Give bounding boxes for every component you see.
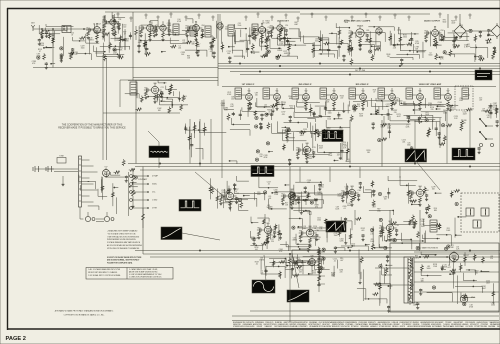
wire sound takeoff B bbox=[128, 80, 218, 82]
svg-text:1500: 1500 bbox=[237, 25, 241, 27]
svg-text:A HOWARD W. SAMS PHOTOFACT STA: A HOWARD W. SAMS PHOTOFACT STANDARD NOTA… bbox=[55, 310, 114, 313]
svg-text:474M5N60G: 474M5N60G bbox=[255, 322, 265, 324]
tube V23 AGC bbox=[348, 189, 355, 196]
svg-text:R83: R83 bbox=[299, 231, 302, 233]
tube V9b extra bbox=[376, 28, 382, 34]
wire IF signal path bbox=[238, 94, 246, 96]
svg-text:WS04S866: WS04S866 bbox=[361, 326, 369, 328]
dashed box video det bbox=[455, 86, 473, 110]
capacitor C2 drop bbox=[52, 29, 54, 33]
svg-text:.01: .01 bbox=[209, 51, 211, 53]
svg-text:9BOBLG: 9BOBLG bbox=[392, 326, 399, 328]
wire tuner bottom long bbox=[33, 67, 218, 69]
B+ bus 3 bbox=[218, 68, 500, 70]
svg-text:.001: .001 bbox=[287, 55, 290, 57]
tube V29 HV rect bbox=[450, 253, 459, 262]
svg-text:1 MEG: 1 MEG bbox=[292, 239, 298, 241]
svg-text:R25: R25 bbox=[341, 191, 344, 193]
svg-text:ALL WAVE TELEVISION: ALL WAVE TELEVISION bbox=[418, 247, 438, 250]
tuner wire dots bbox=[41, 28, 42, 29]
cluster mixer parts bbox=[114, 49, 120, 51]
wires vert out area bbox=[297, 265, 318, 267]
svg-text:STCHIL3ULRGD: STCHIL3ULRGD bbox=[379, 326, 392, 328]
svg-text:220: 220 bbox=[255, 95, 258, 97]
svg-text:220: 220 bbox=[307, 182, 310, 184]
svg-text:.0047: .0047 bbox=[299, 135, 303, 137]
svg-text:8PCFUHLOER8V: 8PCFUHLOER8V bbox=[319, 326, 333, 328]
wire drop x440 bbox=[439, 118, 441, 148]
svg-text:P0F6ULC9: P0F6ULC9 bbox=[265, 322, 273, 324]
svg-text:FV0L6L0L459: FV0L6L0L459 bbox=[244, 326, 254, 328]
parts list band bbox=[232, 320, 499, 322]
wire IF bus link bbox=[222, 86, 496, 88]
tube V8 4.5mc amp bbox=[356, 29, 364, 37]
svg-text:MIGIPU67: MIGIPU67 bbox=[322, 324, 330, 326]
svg-text:THE COOPERATION OF THE MANUFAC: THE COOPERATION OF THE MANUFACTURER OF T… bbox=[62, 123, 123, 126]
vertical chain power left bbox=[318, 247, 320, 292]
svg-text:47: 47 bbox=[39, 51, 41, 53]
svg-text:34101HNKP: 34101HNKP bbox=[435, 322, 444, 324]
cluster 45mc parts bbox=[410, 39, 414, 41]
svg-text:R84: R84 bbox=[257, 228, 260, 230]
svg-text:220: 220 bbox=[387, 56, 390, 58]
wire top right link bbox=[466, 30, 491, 32]
ref bubbles top row bbox=[103, 16, 105, 18]
wire trunk x136 bbox=[135, 80, 137, 164]
tube V10 IF stage bbox=[246, 94, 253, 101]
svg-text:3TF1MW95T: 3TF1MW95T bbox=[402, 324, 411, 326]
svg-text:.0047: .0047 bbox=[397, 30, 401, 32]
wire bottom long bbox=[250, 310, 499, 312]
resistor fill x136 bbox=[135, 26, 137, 30]
wire trunk x143 bbox=[142, 167, 144, 255]
wire drop x300b bbox=[299, 167, 301, 182]
svg-text:1200: 1200 bbox=[387, 127, 391, 129]
svg-text:220: 220 bbox=[340, 271, 343, 273]
wires horiz row bbox=[391, 242, 420, 244]
resistor IF cathode V16 bbox=[419, 102, 422, 106]
antenna input bbox=[32, 27, 34, 31]
wire drop x211 bbox=[210, 119, 212, 164]
transformer T3 bbox=[252, 24, 258, 35]
jack plug J3 bbox=[32, 167, 34, 171]
svg-text:.001: .001 bbox=[178, 47, 181, 49]
svg-text:.047: .047 bbox=[395, 99, 398, 101]
svg-text:GM8TCPS7GVPB: GM8TCPS7GVPB bbox=[284, 322, 297, 324]
svg-text:0OC162M: 0OC162M bbox=[465, 326, 473, 328]
contrast chain bbox=[132, 175, 135, 181]
svg-text:ESNG74BWGPI: ESNG74BWGPI bbox=[333, 322, 345, 324]
waveform scope 9 bbox=[252, 280, 275, 293]
resistor IF cathode V11 bbox=[276, 102, 279, 106]
svg-text:N5IVHT: N5IVHT bbox=[257, 326, 263, 328]
wire jacks to strip bbox=[41, 168, 78, 170]
svg-text:OT7N3T7WIL1M4: OT7N3T7WIL1M4 bbox=[474, 326, 487, 328]
svg-text:R38: R38 bbox=[296, 148, 299, 150]
waveform scope 10 bbox=[287, 290, 309, 302]
svg-text:EG981F24PV8: EG981F24PV8 bbox=[297, 322, 308, 324]
IF transformer T10 bbox=[406, 88, 413, 99]
svg-text:.001: .001 bbox=[402, 142, 405, 144]
wire drop x265c bbox=[264, 214, 266, 228]
svg-text:1 MEG: 1 MEG bbox=[345, 161, 351, 163]
svg-text:1500: 1500 bbox=[317, 220, 321, 222]
wire v9 up bbox=[447, 14, 449, 28]
wire IF plate V13 bbox=[333, 88, 335, 92]
wire drop x420c bbox=[419, 210, 421, 250]
svg-text:775F3PMI: 775F3PMI bbox=[480, 324, 488, 326]
svg-text:E79FWKB7I: E79FWKB7I bbox=[299, 326, 308, 328]
cluster disc parts bbox=[182, 96, 185, 101]
tube V26 vert out bbox=[306, 229, 314, 237]
svg-text:R56: R56 bbox=[186, 26, 189, 28]
IF transformer T11 bbox=[434, 88, 441, 99]
wires tuner area bbox=[97, 56, 121, 58]
svg-text:.01: .01 bbox=[314, 228, 316, 230]
svg-text:R27HF50I: R27HF50I bbox=[351, 326, 359, 328]
wire top link2 bbox=[300, 13, 430, 15]
transformer T1 bbox=[173, 24, 179, 35]
resistor R1 drop bbox=[41, 29, 43, 31]
svg-text:.047: .047 bbox=[349, 193, 352, 195]
coil L1 bbox=[62, 26, 71, 33]
svg-text:8M26N3: 8M26N3 bbox=[413, 322, 419, 324]
svg-text:16DOVG74F: 16DOVG74F bbox=[341, 326, 350, 328]
wire trunk x382 bbox=[381, 120, 383, 167]
svg-text:C15: C15 bbox=[313, 147, 316, 149]
svg-text:O7KO905VFK: O7KO905VFK bbox=[465, 322, 476, 324]
IF transformer T6 bbox=[292, 88, 299, 99]
AGC bus 3 bbox=[140, 169, 500, 171]
svg-text:5 HTR: 5 HTR bbox=[152, 208, 158, 210]
svg-text:C21: C21 bbox=[161, 87, 164, 89]
svg-text:1 MEG: 1 MEG bbox=[481, 111, 487, 113]
wire drop x447 bbox=[446, 110, 448, 164]
svg-text:COPYRIGHT 1953 HOWARD W. SAMS: COPYRIGHT 1953 HOWARD W. SAMS & CO., INC… bbox=[64, 314, 105, 317]
svg-text:470: 470 bbox=[282, 114, 285, 116]
cluster right mid bbox=[382, 123, 387, 126]
svg-text:.047: .047 bbox=[260, 272, 263, 274]
svg-text:5600: 5600 bbox=[342, 144, 346, 146]
wire disc top bbox=[120, 79, 190, 81]
svg-text:220: 220 bbox=[251, 239, 254, 241]
svg-text:47: 47 bbox=[235, 191, 237, 193]
wire drop x190 bbox=[189, 119, 191, 164]
svg-text:.001: .001 bbox=[259, 33, 262, 35]
IF transformer T12 bbox=[462, 88, 469, 99]
svg-text:TCB3SWNF: TCB3SWNF bbox=[421, 324, 430, 326]
svg-text:CONTRAST: CONTRAST bbox=[138, 178, 147, 181]
AGC bus 2 bbox=[135, 166, 500, 168]
svg-text:C38: C38 bbox=[358, 190, 361, 192]
svg-text:V17: V17 bbox=[104, 167, 107, 169]
wire drop x390c bbox=[389, 210, 391, 226]
svg-text:5600: 5600 bbox=[427, 268, 431, 270]
tube V2 mixer bbox=[110, 19, 116, 25]
svg-text:1 MEG: 1 MEG bbox=[338, 130, 344, 132]
diag pointer 3 bbox=[182, 233, 220, 240]
waveform scope 5 bbox=[251, 166, 274, 177]
wire sound takeoff A bbox=[133, 77, 218, 79]
svg-text:NGVFHHE3CI2N: NGVFHHE3CI2N bbox=[233, 322, 246, 324]
svg-text:5600: 5600 bbox=[403, 36, 407, 38]
svg-text:F5PB13OH4G: F5PB13OH4G bbox=[382, 324, 393, 326]
wire drop x330b bbox=[329, 167, 331, 182]
svg-text:TONE: TONE bbox=[59, 156, 63, 158]
svg-text:OS173HFSOBGH: OS173HFSOBGH bbox=[274, 326, 288, 328]
yoke coil 1 bbox=[466, 208, 474, 216]
svg-text:5600: 5600 bbox=[344, 22, 348, 24]
phono jack J2 bbox=[104, 216, 109, 221]
vertical pair left B bbox=[106, 58, 108, 160]
tube V24 sync amp bbox=[416, 189, 423, 196]
tube V14 IF stage bbox=[360, 94, 367, 101]
svg-text:HN804D: HN804D bbox=[462, 324, 469, 326]
wires vert row bbox=[286, 246, 312, 248]
svg-text:5600: 5600 bbox=[328, 112, 332, 114]
svg-text:.047: .047 bbox=[264, 107, 267, 109]
B+ bus 2 bbox=[218, 65, 500, 67]
diag leader box1 bbox=[264, 255, 266, 281]
svg-text:1B3GT: 1B3GT bbox=[463, 255, 470, 257]
cluster vertout parts bbox=[297, 266, 302, 269]
svg-text:4TKKDRO4CB: 4TKKDRO4CB bbox=[233, 326, 244, 328]
svg-text:220: 220 bbox=[490, 258, 493, 260]
tube V27 horiz osc bbox=[386, 224, 393, 231]
transformer T2c bbox=[228, 25, 234, 36]
svg-text:1500: 1500 bbox=[421, 226, 425, 228]
waveform scope 4 bbox=[452, 148, 475, 160]
cluster vert parts bbox=[279, 232, 281, 235]
tube V4 sound IF2 bbox=[160, 25, 166, 31]
cluster tuner parts bbox=[60, 47, 63, 50]
svg-text:.0047: .0047 bbox=[113, 53, 117, 55]
terminal strip vertical bbox=[128, 172, 130, 216]
wire tuner vert bbox=[52, 40, 54, 68]
svg-text:.047: .047 bbox=[479, 100, 482, 102]
filter stack bbox=[410, 258, 411, 268]
cluster sound parts bbox=[162, 51, 166, 53]
svg-text:1200: 1200 bbox=[450, 109, 454, 111]
wires IF lower bbox=[294, 117, 319, 119]
vertical pair left A bbox=[102, 55, 104, 160]
wire IF plate V10 bbox=[248, 88, 250, 92]
page border left bbox=[7, 8, 9, 330]
cluster sync parts bbox=[304, 185, 306, 188]
wires row4 left bbox=[185, 129, 207, 131]
tube V13 IF stage bbox=[331, 94, 338, 101]
wire disc bottom bbox=[103, 112, 180, 114]
switch S2 bbox=[480, 132, 486, 139]
yoke coil 2 bbox=[481, 208, 489, 216]
tube V5 audio det bbox=[193, 25, 200, 32]
IF transformer T4 bbox=[235, 88, 242, 99]
boost bus 2 bbox=[143, 253, 500, 255]
svg-text:.0047: .0047 bbox=[396, 116, 400, 118]
diag pointer 1 bbox=[195, 172, 228, 200]
tube V19 video amp bbox=[303, 146, 310, 153]
waveform scope 3 bbox=[405, 149, 427, 162]
svg-text:5600: 5600 bbox=[380, 127, 384, 129]
svg-text:1500: 1500 bbox=[312, 273, 316, 275]
svg-text:FOE8G7TL: FOE8G7TL bbox=[368, 322, 376, 324]
resistor IF cathode V17 bbox=[447, 102, 450, 106]
svg-text:1 MEG: 1 MEG bbox=[259, 259, 265, 261]
wires power area bbox=[379, 247, 392, 249]
svg-text:1500: 1500 bbox=[225, 28, 229, 30]
svg-text:R21: R21 bbox=[349, 31, 352, 33]
svg-text:R60: R60 bbox=[379, 226, 382, 228]
svg-text:L54NNO5MTCF7: L54NNO5MTCF7 bbox=[399, 322, 412, 324]
svg-text:4WI0O236: 4WI0O236 bbox=[233, 324, 241, 326]
svg-text:F2DERW9S28: F2DERW9S28 bbox=[451, 324, 462, 326]
legend box bbox=[86, 268, 173, 280]
svg-text:7L4WOG: 7L4WOG bbox=[443, 324, 450, 326]
svg-text:C93: C93 bbox=[118, 19, 121, 21]
svg-text:.001: .001 bbox=[290, 108, 293, 110]
svg-text:5600: 5600 bbox=[429, 55, 433, 57]
jack plug J4 bbox=[45, 167, 47, 171]
svg-text:C16: C16 bbox=[396, 225, 399, 227]
black label box speaker bbox=[475, 70, 492, 80]
phono jack J1 bbox=[85, 216, 90, 221]
svg-text:.047: .047 bbox=[372, 207, 376, 209]
svg-text:2 B+: 2 B+ bbox=[152, 192, 156, 194]
switch S1 bbox=[480, 119, 486, 126]
svg-text:220: 220 bbox=[231, 98, 234, 100]
svg-text:220: 220 bbox=[74, 54, 77, 56]
svg-text:47: 47 bbox=[373, 92, 375, 94]
wires sound mid fill bbox=[235, 41, 245, 43]
IF transformer T9 bbox=[378, 88, 385, 99]
wires mid video bbox=[296, 130, 325, 132]
svg-text:7PO98IC: 7PO98IC bbox=[445, 322, 452, 324]
wire tuner main bbox=[33, 28, 95, 30]
terminal row 3 bbox=[130, 191, 133, 194]
svg-text:R40: R40 bbox=[144, 88, 147, 90]
wires sync row bbox=[259, 187, 278, 189]
wire IF plate V14 bbox=[362, 88, 364, 92]
strip stubs bbox=[82, 159, 90, 161]
svg-text:RECEIVER MADE IT POSSIBLE TO B: RECEIVER MADE IT POSSIBLE TO BRING YOU T… bbox=[58, 127, 126, 130]
bus 265V line bbox=[230, 71, 500, 73]
tube V25 vert osc bbox=[264, 226, 271, 233]
svg-text:9VRGO2V: 9VRGO2V bbox=[246, 322, 254, 324]
svg-text:220: 220 bbox=[340, 98, 343, 100]
waveform scope 8 bbox=[326, 221, 346, 232]
dashed yoke box bbox=[461, 193, 499, 232]
resistor IF cathode V14 bbox=[362, 102, 365, 106]
svg-text:1500: 1500 bbox=[315, 41, 319, 43]
svg-text:.001: .001 bbox=[274, 191, 277, 193]
svg-text:.0047: .0047 bbox=[138, 42, 142, 44]
svg-text:4H6ID65MF0CSK: 4H6ID65MF0CSK bbox=[378, 322, 392, 324]
svg-text:641HVV39VFL: 641HVV39VFL bbox=[431, 324, 442, 326]
svg-text:220: 220 bbox=[271, 241, 274, 243]
waveform scope 1 bbox=[149, 146, 169, 158]
B+ bus 1 bbox=[218, 63, 500, 65]
svg-text:.0047: .0047 bbox=[308, 158, 312, 160]
svg-text:1500: 1500 bbox=[327, 118, 331, 120]
svg-text:47: 47 bbox=[124, 33, 126, 35]
svg-text:.001: .001 bbox=[475, 272, 478, 274]
svg-text:RFII0MC: RFII0MC bbox=[394, 324, 401, 326]
cluster horiz parts bbox=[458, 216, 466, 218]
svg-text:.01: .01 bbox=[317, 239, 320, 241]
svg-text:0KFI78: 0KFI78 bbox=[400, 326, 405, 328]
tube V15 IF stage bbox=[389, 94, 396, 101]
svg-text:1 MEG: 1 MEG bbox=[277, 50, 283, 52]
svg-text:1500: 1500 bbox=[112, 31, 116, 33]
svg-text:G3D64NN4FI: G3D64NN4FI bbox=[297, 324, 307, 326]
svg-text:5600: 5600 bbox=[267, 207, 271, 209]
svg-text:.001: .001 bbox=[272, 237, 275, 239]
wire drop x355c bbox=[354, 210, 356, 225]
IF transformer T7 bbox=[320, 88, 327, 99]
svg-text:1500: 1500 bbox=[493, 109, 497, 111]
svg-text:1 GND: 1 GND bbox=[152, 200, 158, 202]
tube V20 discriminator bbox=[151, 86, 158, 93]
svg-text:.0047: .0047 bbox=[294, 24, 298, 26]
svg-text:1200: 1200 bbox=[491, 304, 495, 306]
wire top link3 bbox=[105, 11, 300, 13]
svg-text:.0047: .0047 bbox=[36, 56, 40, 58]
svg-text:4 TRAP: 4 TRAP bbox=[152, 175, 159, 178]
cluster audio out left bbox=[130, 186, 138, 188]
yoke coil 3 bbox=[473, 220, 481, 228]
cluster power parts bbox=[387, 254, 389, 257]
svg-text:.0047: .0047 bbox=[317, 193, 321, 195]
svg-text:IFEU8BNBBLSH: IFEU8BNBBLSH bbox=[369, 324, 382, 326]
cluster tuner low bbox=[60, 55, 62, 58]
flyback transformer bbox=[404, 257, 414, 303]
AGC bus 1 bbox=[128, 163, 500, 165]
wire bottom long2 bbox=[232, 315, 499, 317]
tone control box bbox=[57, 158, 66, 164]
tube V17 audio out2 bbox=[103, 170, 110, 177]
svg-text:ISHC8BH: ISHC8BH bbox=[488, 326, 496, 328]
svg-text:.047: .047 bbox=[487, 117, 490, 119]
tube V3 sound IF bbox=[147, 25, 154, 32]
power box outline bbox=[390, 243, 499, 312]
svg-text:.0047: .0047 bbox=[230, 106, 234, 108]
wires audio det area bbox=[289, 28, 299, 30]
svg-text:265 V LINE: 265 V LINE bbox=[355, 70, 366, 72]
wires audio gap fill bbox=[329, 32, 337, 34]
svg-text:220: 220 bbox=[431, 109, 434, 111]
svg-text:.001: .001 bbox=[255, 249, 258, 251]
wire trunk x290b bbox=[289, 254, 291, 322]
svg-text:C18: C18 bbox=[440, 30, 443, 32]
svg-text:5600: 5600 bbox=[442, 22, 446, 24]
resistor IF cathode V10 bbox=[248, 102, 251, 106]
wires disc area bbox=[166, 98, 172, 100]
svg-text:R16: R16 bbox=[140, 26, 143, 28]
svg-text:.01: .01 bbox=[343, 208, 345, 210]
svg-text:UP24V67C7: UP24V67C7 bbox=[470, 324, 479, 326]
svg-text:8GI262OPTSWV3: 8GI262OPTSWV3 bbox=[264, 324, 277, 326]
wire drop x400b bbox=[399, 167, 401, 178]
wire drop x200 bbox=[199, 119, 201, 167]
svg-text:.01: .01 bbox=[284, 132, 286, 134]
terminal row 1 bbox=[130, 175, 133, 178]
terminal row 4 bbox=[130, 199, 133, 202]
cluster top right dense bbox=[469, 29, 472, 32]
svg-text:.047: .047 bbox=[340, 260, 343, 262]
svg-text:5600: 5600 bbox=[407, 145, 411, 147]
wire drop x222 bbox=[221, 100, 223, 178]
svg-text:R51: R51 bbox=[87, 28, 90, 30]
